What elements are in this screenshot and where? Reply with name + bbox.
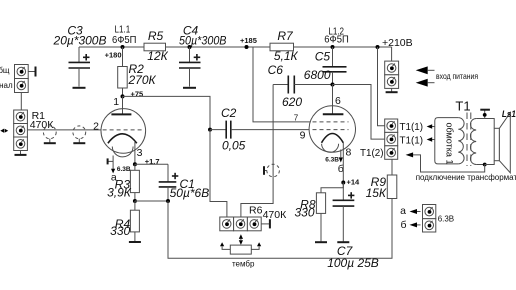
- svg-text:15К: 15К: [366, 186, 387, 200]
- svg-text:подключение трансформатора: подключение трансформатора: [416, 173, 516, 182]
- chassis ground (secondary top): [480, 110, 490, 119]
- svg-text:6: 6: [335, 95, 341, 107]
- svg-text:100µ 25В: 100µ 25В: [327, 256, 379, 270]
- svg-text:C2: C2: [221, 106, 237, 120]
- stub terminator (tone right): [261, 219, 270, 228]
- socket pin (dashed) 3: [264, 164, 279, 177]
- svg-text:тембр: тембр: [232, 260, 255, 269]
- resistor R7: [270, 29, 298, 63]
- stub terminator (common): [28, 67, 35, 77]
- wire block1 to block2: [20, 93, 22, 111]
- wire screen grid +185 to pin7: [253, 47, 311, 122]
- svg-text:0,05: 0,05: [222, 139, 246, 153]
- svg-text:2: 2: [93, 121, 99, 133]
- resistor R5: [144, 29, 169, 63]
- capacitor C2: [210, 106, 311, 153]
- heater pins tube2: [325, 150, 343, 175]
- double arrow marker: [0, 129, 8, 133]
- capacitor C1: [159, 164, 210, 201]
- svg-text:+14: +14: [347, 177, 361, 186]
- input terminal block (common/signal): [0, 65, 28, 93]
- ground (block R1): [15, 151, 27, 155]
- svg-text:5,1К: 5,1К: [274, 49, 299, 63]
- node +75: [121, 89, 144, 98]
- wire plate node to tone terminal 1: [210, 130, 227, 217]
- svg-text:12К: 12К: [147, 49, 168, 63]
- svg-text:T1(2): T1(2): [360, 147, 384, 159]
- svg-text:+75: +75: [131, 89, 144, 98]
- svg-text:+210В: +210В: [382, 37, 413, 49]
- svg-text:общ: общ: [0, 66, 10, 75]
- wire secondary to T1(2) arrow: [406, 152, 485, 172]
- svg-text:+1.7: +1.7: [145, 157, 160, 166]
- svg-text:R6: R6: [249, 204, 263, 216]
- svg-text:б: б: [400, 219, 406, 231]
- svg-text:20µ*300В: 20µ*300В: [53, 34, 107, 48]
- svg-text:470К: 470К: [263, 209, 288, 221]
- svg-text:+180: +180: [105, 51, 122, 60]
- svg-text:T1(1): T1(1): [400, 135, 424, 147]
- svg-text:330: 330: [110, 224, 130, 238]
- potentiometer tone (external): [220, 234, 261, 268]
- triode L1.1: [93, 96, 146, 159]
- terminal block tone control: [220, 217, 261, 231]
- label R6 470K: [249, 204, 287, 221]
- svg-text:8: 8: [345, 147, 351, 159]
- capacitor C3: [53, 24, 107, 87]
- transformer core: [467, 113, 471, 167]
- wire +210V drop: [391, 47, 393, 61]
- svg-text:6.3В: 6.3В: [438, 214, 454, 223]
- svg-text:Ls1: Ls1: [502, 109, 516, 120]
- svg-text:270К: 270К: [128, 73, 157, 87]
- ground (+210V block): [386, 88, 398, 92]
- ground (C3): [73, 87, 86, 89]
- svg-text:C6: C6: [268, 63, 284, 77]
- svg-text:50µ*6В: 50µ*6В: [170, 186, 210, 200]
- resistor R8: [294, 183, 343, 242]
- resistor R9: [366, 159, 397, 200]
- svg-text:T1: T1: [455, 99, 470, 114]
- transformer T1 secondary: [470, 119, 484, 165]
- wire main HT bus: [79, 46, 392, 48]
- ground (R4): [129, 241, 141, 243]
- node C2 input: [208, 128, 212, 132]
- wire grid line tube1: [27, 129, 101, 131]
- annotation arrows power input: [416, 66, 479, 86]
- node +185: [240, 36, 257, 49]
- wire anode node to T1(2) terminal: [333, 85, 385, 140]
- svg-text:сигнал: сигнал: [0, 81, 13, 90]
- svg-text:R7: R7: [277, 29, 294, 43]
- ground (C4): [183, 87, 196, 89]
- svg-text:7: 7: [294, 114, 299, 123]
- label a with arrow: [400, 205, 420, 217]
- svg-text:50µ*300В: 50µ*300В: [179, 34, 227, 48]
- capacitor C5: [304, 45, 347, 85]
- node +75 to C2 wire: [123, 96, 211, 129]
- svg-text:а: а: [400, 205, 406, 217]
- svg-text:6Ф5П: 6Ф5П: [324, 34, 349, 46]
- ground (R8): [315, 241, 327, 243]
- svg-text:6.3В: 6.3В: [117, 166, 131, 173]
- transformer primary lead arrows: [427, 124, 435, 142]
- svg-text:+185: +185: [240, 36, 257, 45]
- label R1 470K: [30, 110, 55, 131]
- input terminal block R1 (volume): [14, 110, 28, 151]
- svg-text:1: 1: [113, 96, 119, 108]
- svg-text:6800: 6800: [304, 68, 331, 82]
- resistor R3: [107, 164, 139, 201]
- wire bus to T1(1) terminal: [376, 45, 385, 126]
- label b with arrow: [400, 219, 420, 231]
- svg-text:3,9К: 3,9К: [107, 185, 132, 199]
- wire cathode tube1 / node +1.7: [133, 142, 168, 166]
- socket pin (dashed) 2: [73, 126, 86, 143]
- svg-text:T1(1): T1(1): [400, 121, 424, 133]
- node R3/R4 junction: [133, 199, 170, 203]
- svg-text:R5: R5: [148, 29, 164, 43]
- svg-text:620: 620: [282, 95, 302, 109]
- speaker Ls1: [485, 109, 516, 173]
- heater pins tube1: [108, 156, 131, 184]
- wire cathode tube2 / node +14: [341, 143, 360, 187]
- svg-text:470К: 470К: [30, 119, 55, 131]
- tube label L1.1: [112, 24, 137, 47]
- terminal block T1: [385, 119, 398, 159]
- node +180: [105, 45, 125, 60]
- terminal block heater 6.3V: [423, 205, 455, 233]
- terminal block +210V: [385, 61, 399, 88]
- socket pin (dashed) 1: [43, 126, 56, 143]
- capacitor C7: [327, 183, 379, 270]
- svg-text:C5: C5: [315, 49, 331, 63]
- tube label L1.2: [324, 25, 349, 45]
- capacitor C6: [268, 63, 333, 109]
- svg-text:обмотка 1: обмотка 1: [445, 123, 455, 165]
- pentode L1.2: [309, 85, 355, 159]
- svg-text:330: 330: [294, 206, 314, 220]
- svg-text:3: 3: [137, 147, 143, 159]
- node secondary bottom: [483, 163, 487, 167]
- svg-text:6Ф5П: 6Ф5П: [112, 34, 137, 46]
- resistor R4: [110, 201, 139, 241]
- wire tone branch vertical: [241, 85, 273, 218]
- resistor R2: [118, 47, 157, 96]
- svg-text:вход питания: вход питания: [436, 71, 478, 81]
- transformer T1 primary: [435, 118, 464, 165]
- node anode L1.2: [331, 83, 335, 87]
- svg-text:9: 9: [300, 129, 306, 141]
- capacitor C4: [179, 24, 227, 87]
- wire feedback rail: [168, 199, 392, 259]
- ground (C7): [337, 241, 349, 243]
